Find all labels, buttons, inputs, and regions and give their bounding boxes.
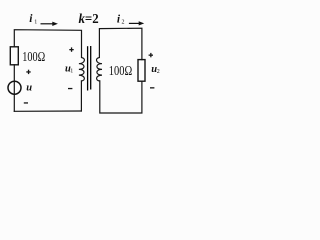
svg-text:100Ω: 100Ω xyxy=(109,64,132,79)
current arrow i1 xyxy=(41,23,54,25)
primary minus sign xyxy=(68,88,72,89)
wire bottom of right loop xyxy=(100,81,142,113)
resistor R2 xyxy=(138,60,145,82)
transformer primary winding L1 xyxy=(79,58,85,81)
source minus sign xyxy=(24,102,28,103)
secondary minus sign xyxy=(150,87,154,88)
wire left side below resistor R1 through source xyxy=(13,65,15,112)
voltage source u (circle) xyxy=(8,81,21,94)
source plus sign xyxy=(26,70,30,74)
svg-text:i: i xyxy=(117,14,121,26)
secondary plus sign xyxy=(149,53,153,57)
wire primary bottom lead xyxy=(80,81,82,111)
transformer secondary winding L2 xyxy=(96,58,102,81)
svg-text:i: i xyxy=(29,13,33,25)
svg-text:u: u xyxy=(26,83,32,94)
primary plus sign xyxy=(69,47,73,51)
resistor R1 xyxy=(10,47,18,65)
svg-text:2: 2 xyxy=(122,20,125,26)
transformer core line 2 xyxy=(90,46,92,90)
current arrow i2 xyxy=(129,22,140,24)
wire top of left loop xyxy=(14,30,81,58)
wire top of right loop xyxy=(99,28,141,59)
svg-text:k=2: k=2 xyxy=(79,11,99,26)
svg-text:2: 2 xyxy=(157,69,160,75)
transformer core line 1 xyxy=(87,46,89,90)
svg-text:1: 1 xyxy=(34,19,37,25)
svg-text:100Ω: 100Ω xyxy=(22,50,45,65)
wire bottom of left loop xyxy=(14,110,81,112)
svg-text:1: 1 xyxy=(70,69,73,75)
